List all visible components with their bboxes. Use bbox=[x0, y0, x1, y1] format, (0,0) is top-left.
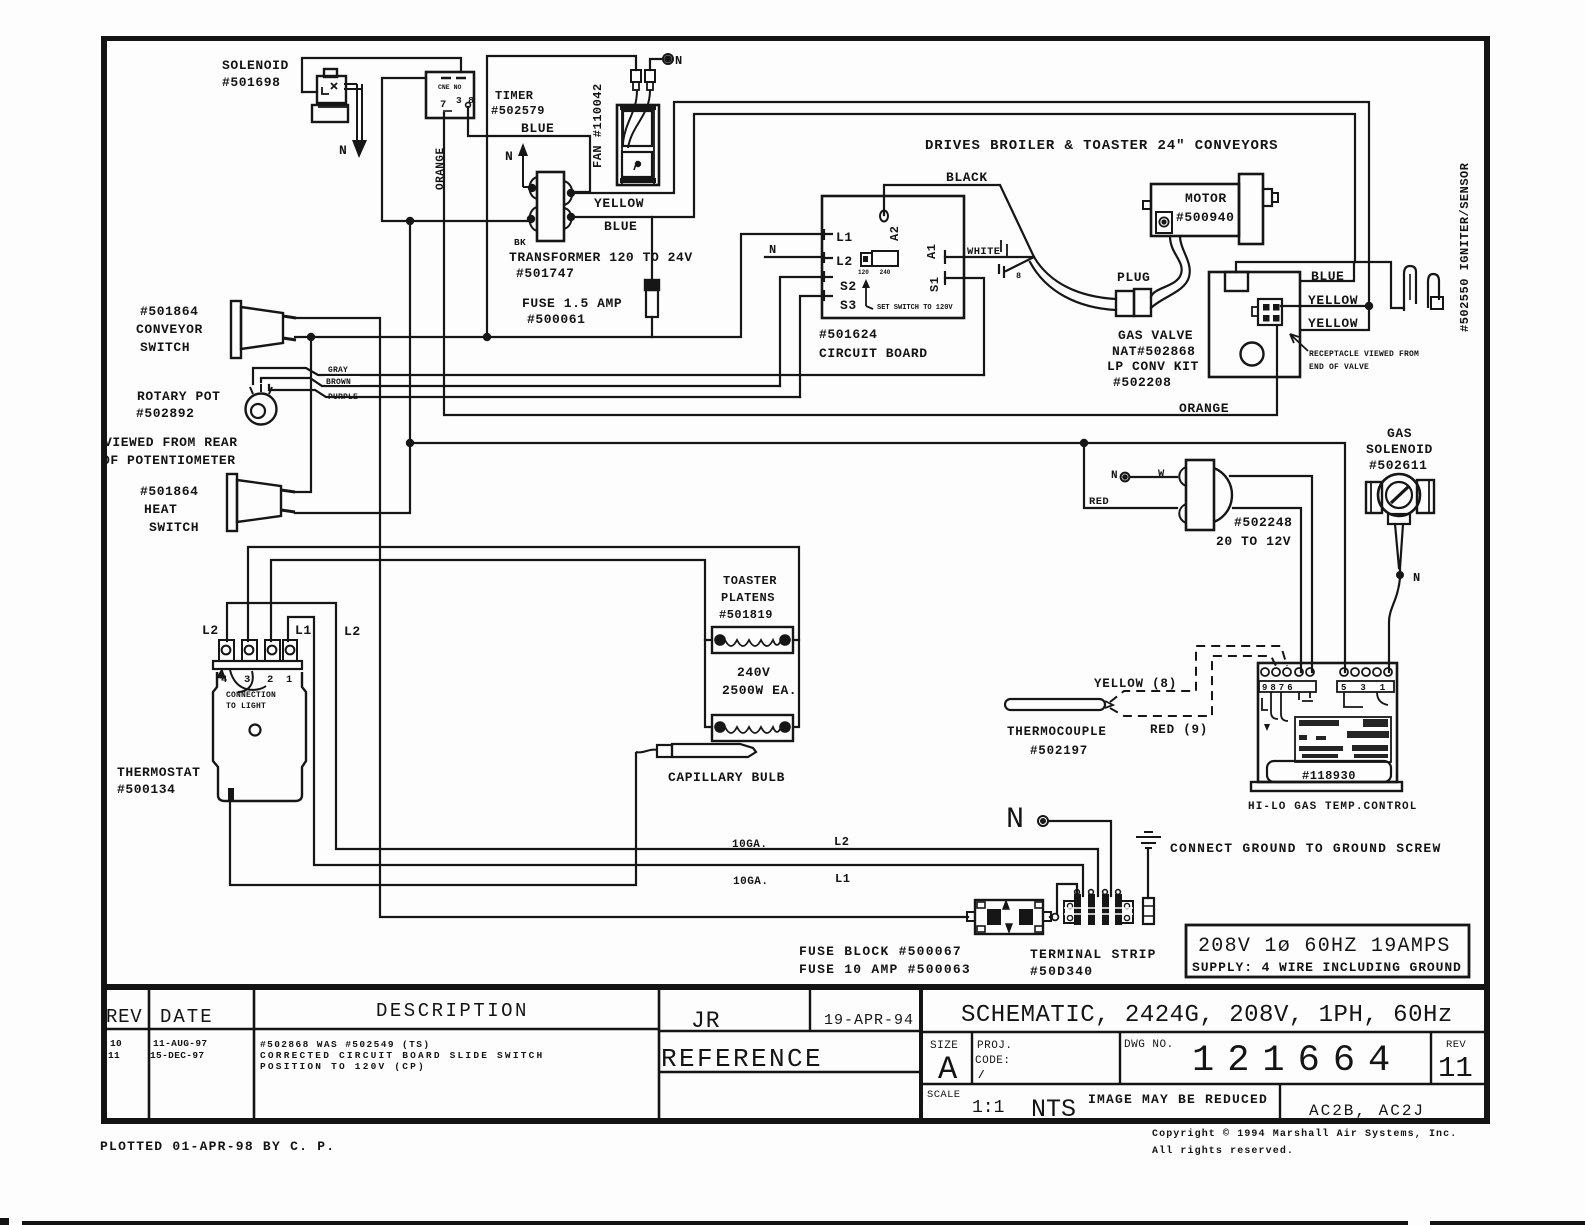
svg-text:4: 4 bbox=[221, 674, 228, 686]
svg-text:AC2B, AC2J: AC2B, AC2J bbox=[1309, 1102, 1425, 1120]
svg-text:ORANGE: ORANGE bbox=[1179, 401, 1229, 416]
svg-text:FAN #110042: FAN #110042 bbox=[591, 83, 605, 168]
svg-text:/: / bbox=[978, 1070, 985, 1082]
svg-text:REFERENCE: REFERENCE bbox=[661, 1044, 823, 1074]
svg-text:W: W bbox=[1158, 468, 1165, 480]
svg-text:NAT#502868: NAT#502868 bbox=[1112, 344, 1196, 359]
svg-text:CONVEYOR: CONVEYOR bbox=[136, 322, 203, 337]
svg-text:JR: JR bbox=[691, 1008, 721, 1034]
svg-text:RED (9): RED (9) bbox=[1150, 723, 1208, 737]
svg-text:BLUE: BLUE bbox=[604, 219, 637, 234]
svg-text:TRANSFORMER 120 TO 24V: TRANSFORMER 120 TO 24V bbox=[509, 250, 693, 265]
svg-text:10GA.: 10GA. bbox=[732, 839, 768, 851]
svg-text:BLUE: BLUE bbox=[1311, 269, 1344, 284]
svg-text:SOLENOID: SOLENOID bbox=[1366, 442, 1433, 457]
svg-text:DATE: DATE bbox=[160, 1006, 214, 1028]
svg-text:DESCRIPTION: DESCRIPTION bbox=[376, 1000, 529, 1022]
svg-text:FUSE BLOCK #500067: FUSE BLOCK #500067 bbox=[799, 944, 962, 959]
svg-text:N: N bbox=[1413, 571, 1421, 585]
svg-text:S1: S1 bbox=[928, 277, 942, 292]
svg-text:S2: S2 bbox=[840, 279, 857, 294]
svg-text:L1: L1 bbox=[836, 230, 853, 245]
svg-text:REV: REV bbox=[106, 1006, 142, 1028]
svg-text:LP CONV KIT: LP CONV KIT bbox=[1107, 359, 1199, 374]
svg-text:#501819: #501819 bbox=[719, 608, 773, 622]
svg-text:#502208: #502208 bbox=[1113, 375, 1171, 390]
svg-text:END OF VALVE: END OF VALVE bbox=[1309, 363, 1369, 372]
svg-text:CNE NO: CNE NO bbox=[438, 84, 462, 91]
svg-text:TIMER: TIMER bbox=[495, 89, 534, 103]
svg-text:GRAY: GRAY bbox=[328, 366, 348, 375]
svg-text:SCHEMATIC, 2424G, 208V, 1PH, 6: SCHEMATIC, 2424G, 208V, 1PH, 60Hz bbox=[961, 1002, 1453, 1029]
svg-text:N: N bbox=[1006, 803, 1024, 837]
svg-text:15-DEC-97: 15-DEC-97 bbox=[150, 1050, 204, 1061]
svg-text:19-APR-94: 19-APR-94 bbox=[824, 1012, 914, 1029]
svg-text:Copyright © 1994 Marshall Air: Copyright © 1994 Marshall Air Systems, I… bbox=[1152, 1128, 1457, 1140]
svg-text:SET SWITCH TO 120V: SET SWITCH TO 120V bbox=[877, 304, 953, 312]
svg-text:TOASTER: TOASTER bbox=[723, 574, 777, 588]
svg-text:YELLOW (8): YELLOW (8) bbox=[1094, 677, 1177, 691]
svg-text:N: N bbox=[505, 149, 513, 164]
svg-text:121664: 121664 bbox=[1192, 1040, 1403, 1082]
svg-text:8: 8 bbox=[1016, 271, 1021, 281]
svg-text:10: 10 bbox=[110, 1038, 122, 1049]
svg-text:CAPILLARY BULB: CAPILLARY BULB bbox=[668, 770, 785, 785]
svg-text:L1: L1 bbox=[295, 623, 312, 638]
svg-text:120 240: 120 240 bbox=[858, 269, 891, 276]
svg-text:3 8: 3 8 bbox=[456, 95, 474, 106]
svg-text:All rights reserved.: All rights reserved. bbox=[1152, 1145, 1294, 1157]
svg-text:VIEWED FROM REAR: VIEWED FROM REAR bbox=[104, 435, 238, 450]
svg-text:OF POTENTIOMETER: OF POTENTIOMETER bbox=[102, 453, 236, 468]
svg-text:POSITION TO 120V (CP): POSITION TO 120V (CP) bbox=[260, 1061, 426, 1072]
svg-text:10GA.: 10GA. bbox=[733, 876, 769, 888]
svg-text:L2: L2 bbox=[202, 623, 219, 638]
svg-text:TO LIGHT: TO LIGHT bbox=[226, 702, 266, 711]
svg-text:N: N bbox=[1111, 470, 1118, 482]
svg-text:#502868 WAS #502549 (TS): #502868 WAS #502549 (TS) bbox=[260, 1039, 430, 1050]
svg-text:#118930: #118930 bbox=[1302, 769, 1356, 783]
svg-text:BLACK: BLACK bbox=[946, 170, 988, 185]
svg-text:240V: 240V bbox=[737, 665, 770, 680]
svg-text:THERMOSTAT: THERMOSTAT bbox=[117, 765, 201, 780]
svg-text:531: 531 bbox=[1341, 683, 1399, 693]
svg-text:NTS: NTS bbox=[1031, 1095, 1076, 1124]
svg-text:RECEPTACLE VIEWED FROM: RECEPTACLE VIEWED FROM bbox=[1309, 350, 1419, 359]
svg-text:RED: RED bbox=[1089, 496, 1109, 508]
svg-text:#502248: #502248 bbox=[1234, 515, 1292, 530]
svg-text:208V 1ø 60HZ 19AMPS: 208V 1ø 60HZ 19AMPS bbox=[1198, 935, 1451, 958]
svg-text:3: 3 bbox=[244, 674, 251, 686]
svg-text:ORANGE: ORANGE bbox=[435, 147, 447, 190]
svg-text:MOTOR: MOTOR bbox=[1185, 191, 1227, 206]
svg-text:SWITCH: SWITCH bbox=[140, 340, 190, 355]
svg-text:PURPLE: PURPLE bbox=[328, 393, 358, 402]
svg-text:#501864: #501864 bbox=[140, 484, 198, 499]
svg-text:CORRECTED CIRCUIT BOARD SLIDE: CORRECTED CIRCUIT BOARD SLIDE SWITCH bbox=[260, 1050, 544, 1061]
svg-text:BLUE: BLUE bbox=[521, 121, 554, 136]
svg-text:ROTARY POT: ROTARY POT bbox=[137, 389, 221, 404]
svg-text:CONNECTION: CONNECTION bbox=[226, 691, 276, 700]
svg-text:20 TO 12V: 20 TO 12V bbox=[1216, 534, 1291, 549]
svg-text:N: N bbox=[769, 243, 777, 257]
svg-text:IMAGE MAY BE REDUCED: IMAGE MAY BE REDUCED bbox=[1088, 1092, 1268, 1107]
svg-text:HI-LO GAS TEMP.CONTROL: HI-LO GAS TEMP.CONTROL bbox=[1248, 801, 1417, 813]
svg-text:TERMINAL STRIP: TERMINAL STRIP bbox=[1030, 947, 1157, 962]
svg-text:9876: 9876 bbox=[1262, 683, 1296, 693]
svg-text:2500W EA.: 2500W EA. bbox=[722, 683, 797, 698]
svg-text:PLUG: PLUG bbox=[1117, 270, 1150, 285]
svg-text:BK: BK bbox=[514, 237, 526, 248]
svg-text:7: 7 bbox=[440, 99, 447, 111]
svg-text:#50D340: #50D340 bbox=[1030, 964, 1093, 979]
svg-text:L1: L1 bbox=[835, 872, 850, 886]
svg-text:#500134: #500134 bbox=[117, 782, 175, 797]
svg-text:#501698: #501698 bbox=[222, 75, 280, 90]
svg-text:DWG NO.: DWG NO. bbox=[1124, 1039, 1174, 1051]
svg-text:#501624: #501624 bbox=[819, 327, 877, 342]
svg-text:1: 1 bbox=[286, 674, 293, 686]
svg-text:#500061: #500061 bbox=[527, 312, 585, 327]
svg-text:THERMOCOUPLE: THERMOCOUPLE bbox=[1007, 725, 1107, 739]
svg-text:PLATENS: PLATENS bbox=[721, 591, 775, 605]
svg-text:GAS: GAS bbox=[1387, 426, 1412, 441]
svg-text:YELLOW: YELLOW bbox=[1308, 316, 1358, 331]
svg-text:YELLOW: YELLOW bbox=[594, 196, 644, 211]
svg-text:SUPPLY: 4 WIRE INCLUDING GROUN: SUPPLY: 4 WIRE INCLUDING GROUND bbox=[1192, 960, 1462, 975]
svg-text:GAS VALVE: GAS VALVE bbox=[1118, 328, 1193, 343]
svg-text:L2: L2 bbox=[834, 835, 849, 849]
svg-text:L2: L2 bbox=[836, 254, 853, 269]
svg-text:SCALE: SCALE bbox=[927, 1089, 961, 1101]
svg-text:CODE:: CODE: bbox=[975, 1055, 1011, 1067]
svg-text:FUSE 10 AMP #500063: FUSE 10 AMP #500063 bbox=[799, 962, 971, 977]
svg-text:SWITCH: SWITCH bbox=[149, 520, 199, 535]
svg-text:A2: A2 bbox=[888, 226, 902, 241]
svg-text:A1: A1 bbox=[925, 244, 939, 259]
svg-text:BROWN: BROWN bbox=[326, 378, 351, 387]
svg-text:N: N bbox=[675, 54, 683, 68]
svg-text:N: N bbox=[339, 143, 347, 158]
svg-text:S3: S3 bbox=[840, 298, 857, 313]
svg-text:#500940: #500940 bbox=[1176, 210, 1234, 225]
svg-text:11-AUG-97: 11-AUG-97 bbox=[153, 1038, 207, 1049]
svg-text:#502550 IGNITER/SENSOR: #502550 IGNITER/SENSOR bbox=[1458, 162, 1472, 332]
svg-text:#501747: #501747 bbox=[516, 266, 574, 281]
svg-text:#502197: #502197 bbox=[1030, 744, 1088, 758]
svg-text:FUSE 1.5 AMP: FUSE 1.5 AMP bbox=[522, 296, 622, 311]
svg-text:#502892: #502892 bbox=[136, 406, 194, 421]
svg-text:PROJ.: PROJ. bbox=[977, 1040, 1013, 1052]
svg-text:WHITE: WHITE bbox=[967, 246, 1001, 258]
svg-text:SOLENOID: SOLENOID bbox=[222, 58, 289, 73]
svg-text:HEAT: HEAT bbox=[144, 502, 177, 517]
svg-text:#502611: #502611 bbox=[1369, 458, 1427, 473]
svg-text:11: 11 bbox=[1438, 1052, 1473, 1085]
svg-text:YELLOW: YELLOW bbox=[1308, 293, 1358, 308]
svg-text:1:1: 1:1 bbox=[972, 1098, 1004, 1118]
svg-text:L2: L2 bbox=[344, 624, 361, 639]
svg-text:PLOTTED 01-APR-98 BY C. P.: PLOTTED 01-APR-98 BY C. P. bbox=[100, 1139, 335, 1154]
svg-text:2: 2 bbox=[267, 674, 274, 686]
svg-text:DRIVES BROILER & TOASTER 24" C: DRIVES BROILER & TOASTER 24" CONVEYORS bbox=[925, 138, 1278, 154]
svg-text:CONNECT GROUND TO GROUND SCREW: CONNECT GROUND TO GROUND SCREW bbox=[1170, 841, 1442, 856]
svg-text:CIRCUIT BOARD: CIRCUIT BOARD bbox=[819, 346, 928, 361]
svg-text:#501864: #501864 bbox=[140, 304, 198, 319]
svg-text:REV: REV bbox=[1446, 1039, 1466, 1051]
svg-text:11: 11 bbox=[108, 1050, 120, 1061]
svg-text:A: A bbox=[938, 1051, 958, 1088]
svg-text:#502579: #502579 bbox=[491, 104, 545, 118]
